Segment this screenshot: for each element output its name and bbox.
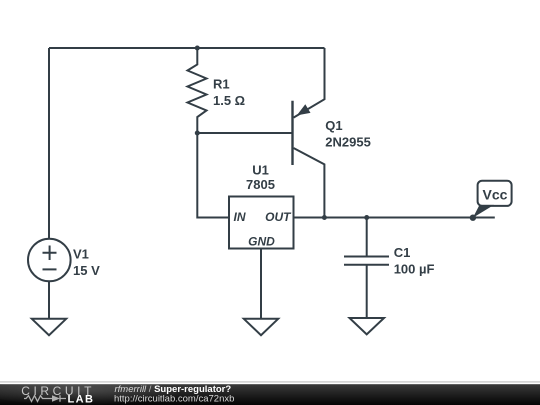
capacitor C1 lead bottom [366, 265, 368, 318]
node dot Vcc flag anchor [470, 215, 476, 221]
svg-text:1.5 Ω: 1.5 Ω [213, 93, 245, 108]
voltage source V1 body [28, 239, 71, 282]
svg-text:V1: V1 [73, 247, 89, 262]
transistor Q1 collector [294, 148, 325, 218]
V1 minus sign [43, 268, 57, 270]
node dot C1 / OUT rail [364, 215, 369, 220]
svg-text:http://circuitlab.com/ca72nxb: http://circuitlab.com/ca72nxb [114, 394, 234, 405]
svg-text:GND: GND [248, 235, 275, 249]
svg-text:R1: R1 [213, 76, 230, 91]
transistor Q1 emitter [294, 48, 325, 118]
svg-text:C1: C1 [394, 245, 411, 260]
svg-text:15 V: 15 V [73, 263, 100, 278]
wire left vertical (V1 to top rail) [48, 48, 50, 239]
wire top rail [49, 47, 325, 49]
svg-text:100 µF: 100 µF [394, 262, 435, 277]
capacitor C1 plates [344, 257, 389, 265]
Q1 emitter arrowhead [297, 104, 311, 115]
ground (U1) [244, 319, 278, 335]
wire OUT rail [294, 217, 495, 219]
svg-text:U1: U1 [252, 163, 269, 178]
transistor Q1 bar [291, 101, 293, 165]
svg-text:LAB: LAB [68, 394, 95, 405]
node dot collector / OUT rail [322, 215, 327, 220]
wire V1 bottom lead [48, 281, 50, 319]
wire U1 GND pin [260, 249, 262, 320]
resistor R1 [188, 48, 207, 133]
svg-text:Q1: Q1 [325, 118, 342, 133]
svg-text:2N2955: 2N2955 [325, 135, 371, 150]
wire base (R1 bottom to Q1 base) [197, 132, 292, 134]
svg-text:Vcc: Vcc [483, 186, 508, 202]
footer logo resistor-diode glyph [24, 395, 66, 401]
capacitor C1 lead top [366, 218, 368, 257]
ground (V1) [32, 319, 66, 335]
Vcc flag box [478, 181, 512, 206]
op-amp U1 box (7805 regulator) [229, 197, 294, 249]
V1 plus sign [43, 246, 57, 261]
ground (C1) [350, 318, 385, 334]
wire to U1 IN [197, 133, 229, 218]
footer bar [0, 381, 540, 382]
svg-text:IN: IN [234, 210, 246, 224]
svg-text:OUT: OUT [265, 210, 292, 224]
node dot top rail / R1 [195, 46, 200, 51]
svg-text:7805: 7805 [246, 177, 275, 192]
Vcc flag pointer wedge [473, 205, 494, 218]
node dot R1 bottom / base [195, 131, 200, 136]
